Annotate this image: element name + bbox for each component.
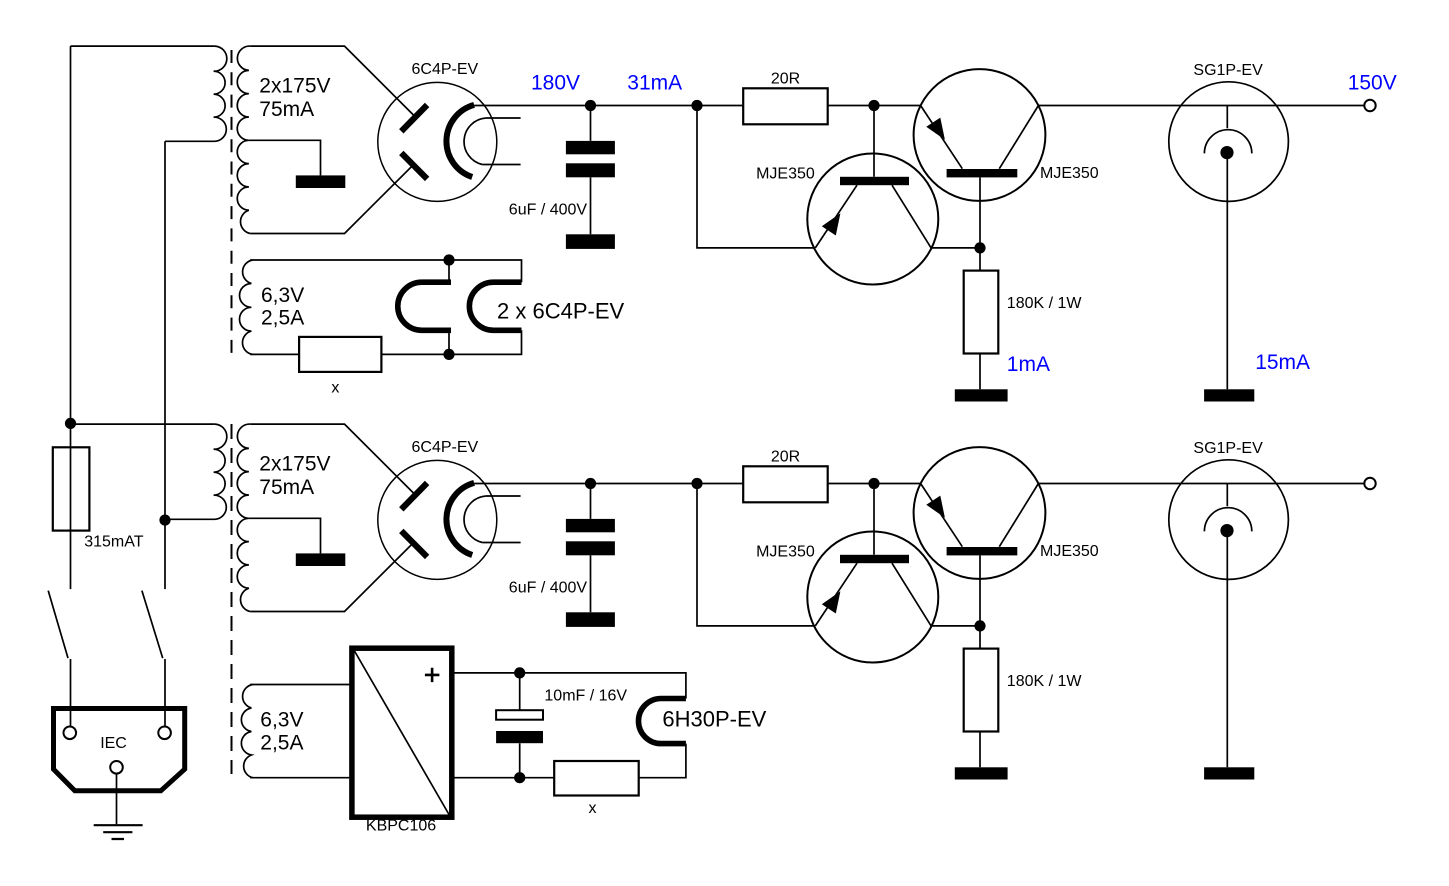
svg-text:15mA: 15mA [1255,351,1310,374]
svg-text:KBPC106: KBPC106 [366,818,436,835]
svg-text:315mAT: 315mAT [84,534,144,551]
svg-text:150V: 150V [1348,71,1397,94]
svg-text:180V: 180V [531,72,580,95]
svg-text:2 x 6C4P-EV: 2 x 6C4P-EV [497,299,624,324]
svg-text:6,3V: 6,3V [261,284,304,307]
svg-text:2,5A: 2,5A [260,732,303,755]
svg-text:2,5A: 2,5A [261,307,304,330]
svg-text:6,3V: 6,3V [260,709,303,732]
svg-text:10mF / 16V: 10mF / 16V [544,687,627,704]
svg-text:x: x [589,800,597,817]
svg-text:IEC: IEC [100,735,127,752]
svg-text:x: x [331,380,339,397]
svg-text:1mA: 1mA [1007,353,1050,376]
svg-text:31mA: 31mA [627,72,682,95]
svg-text:6H30P-EV: 6H30P-EV [662,707,766,732]
